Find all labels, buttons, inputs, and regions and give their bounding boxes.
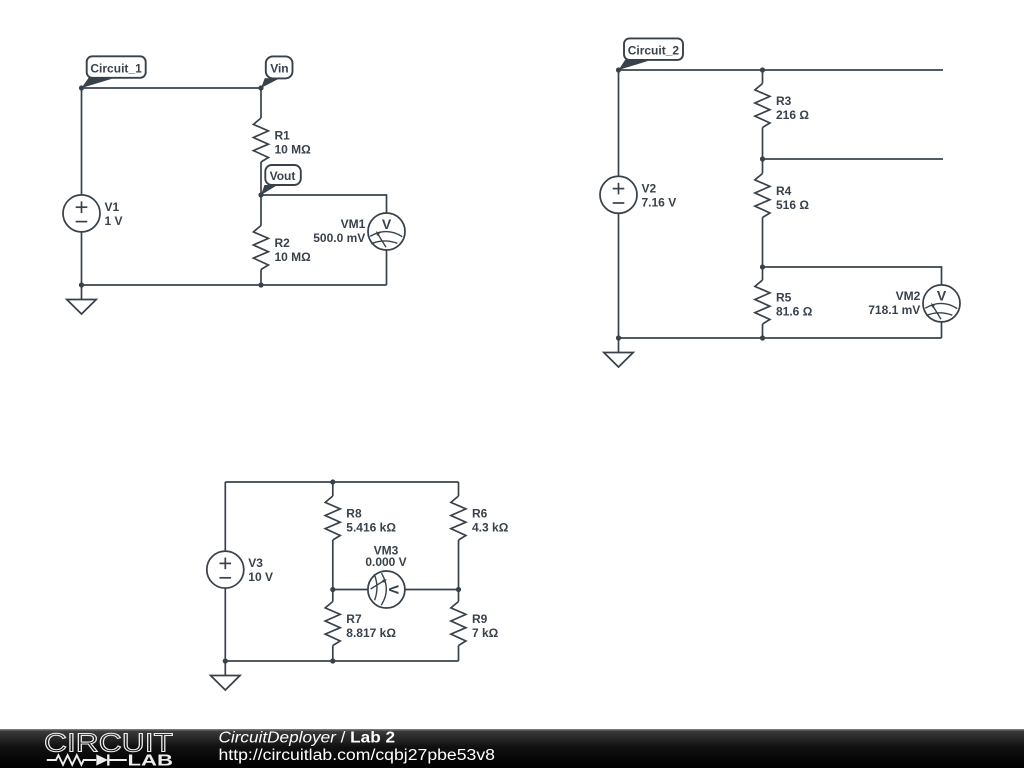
resistor R4 (755, 174, 809, 218)
ground circuit3 (211, 661, 240, 690)
svg-text:R3: R3 (776, 94, 792, 108)
node Vout (258, 192, 263, 197)
svg-text:5.416 kΩ: 5.416 kΩ (346, 521, 396, 535)
wire VM3 to bridge mid-right (405, 589, 459, 591)
svg-text:7.16 V: 7.16 V (642, 195, 677, 209)
resistor R5 (755, 280, 813, 324)
wire V3 bottom (224, 588, 226, 661)
wire R1 to Vout (260, 162, 262, 195)
svg-text:R1: R1 (275, 129, 291, 143)
resistor R7 (325, 602, 396, 646)
svg-text:V3: V3 (248, 556, 263, 570)
node bridge mid-left (330, 587, 335, 592)
node Vin (258, 85, 263, 90)
wire V1 bottom (81, 232, 83, 285)
wire top circuit2 (619, 69, 944, 71)
wire bottom circuit2 (619, 337, 942, 339)
svg-text:7 kΩ: 7 kΩ (472, 626, 499, 640)
resistor R1 (253, 118, 311, 162)
node circuit1 top-left (79, 85, 84, 90)
wire R4 to R5 junction (762, 218, 764, 281)
node mid junction (760, 156, 765, 161)
svg-text:CircuitDeployer / Lab 2: CircuitDeployer / Lab 2 (219, 730, 396, 747)
voltage source V2 (600, 176, 676, 213)
wire R3 top lead (762, 70, 764, 84)
svg-text:0.000 V: 0.000 V (365, 555, 406, 569)
svg-text:VM1: VM1 (341, 217, 366, 231)
ground circuit1 (67, 285, 96, 314)
wire R5 junction to VM2 (763, 267, 942, 285)
resistor R2 (253, 226, 311, 270)
node R3 top (760, 67, 765, 72)
wire R8 top lead (332, 482, 334, 496)
svg-text:V: V (937, 288, 947, 304)
node R5 bottom (760, 335, 765, 340)
svg-text:LAB: LAB (128, 753, 174, 768)
svg-text:R9: R9 (472, 612, 488, 626)
node bridge mid-right (456, 587, 461, 592)
wire left circuit3 V3 top (224, 482, 226, 551)
voltage source V3 (207, 551, 273, 588)
svg-text:10 MΩ: 10 MΩ (275, 250, 312, 264)
svg-text:VM2: VM2 (896, 289, 921, 303)
wire Vout to VM1 (261, 195, 387, 213)
svg-text:R7: R7 (346, 612, 362, 626)
svg-text:8.817 kΩ: 8.817 kΩ (346, 626, 396, 640)
svg-text:Circuit_1: Circuit_1 (90, 61, 142, 75)
svg-text:V: V (386, 585, 402, 595)
wire VM2 bottom (941, 322, 943, 338)
resistor R9 (451, 602, 499, 646)
svg-text:V: V (382, 216, 392, 232)
wire R9 bottom (458, 646, 460, 662)
svg-text:http://circuitlab.com/cqbj27pb: http://circuitlab.com/cqbj27pbe53v8 (219, 747, 496, 764)
label flag Circuit_2 (619, 38, 684, 70)
wire mid junction right (763, 158, 944, 160)
svg-text:718.1 mV: 718.1 mV (868, 303, 920, 317)
voltmeter VM3 (365, 544, 406, 609)
wire R2 bottom (260, 270, 262, 286)
svg-text:516 Ω: 516 Ω (776, 198, 809, 212)
wire R7 bottom (332, 646, 334, 662)
svg-text:4.3 kΩ: 4.3 kΩ (472, 521, 509, 535)
svg-text:Circuit_2: Circuit_2 (628, 43, 680, 57)
svg-text:R4: R4 (776, 184, 792, 198)
resistor R8 (325, 496, 396, 540)
wire R8 to bridge mid-left (332, 540, 334, 602)
resistor R3 (755, 84, 809, 128)
svg-text:Vout: Vout (270, 169, 296, 183)
svg-text:500.0 mV: 500.0 mV (313, 231, 365, 245)
svg-text:R5: R5 (776, 291, 792, 305)
svg-text:R2: R2 (275, 236, 291, 250)
node R5 top (760, 264, 765, 269)
node circuit2 bottom-left (616, 335, 621, 340)
svg-text:V2: V2 (642, 181, 657, 195)
voltage source V1 (63, 195, 123, 232)
node R2 bottom (258, 282, 263, 287)
wire R5 bottom (762, 324, 764, 338)
wire R6 top lead (458, 482, 460, 496)
wire VM1 bottom (386, 250, 388, 285)
node circuit1 bottom-left (79, 282, 84, 287)
resistor R6 (451, 496, 509, 540)
label flag Vin (261, 56, 293, 88)
logo resistor-diode (47, 754, 127, 765)
label flag Vout (261, 165, 301, 195)
label flag Circuit_1 (82, 56, 146, 88)
wire R3 to mid junction (762, 128, 764, 174)
svg-text:V1: V1 (105, 200, 120, 214)
svg-text:81.6 Ω: 81.6 Ω (776, 305, 813, 319)
wire top circuit1 (82, 87, 262, 89)
node circuit3 bottom-left (223, 658, 228, 663)
wire Vout to R2 (260, 195, 262, 226)
footer bar (0, 729, 1024, 768)
svg-text:10 V: 10 V (248, 570, 273, 584)
svg-text:Vin: Vin (270, 62, 288, 76)
wire top circuit3 (225, 481, 458, 483)
svg-text:1 V: 1 V (105, 214, 123, 228)
wire Vin to R1 (260, 88, 262, 118)
wire left circuit2 V2 top (618, 70, 620, 176)
svg-text:10 MΩ: 10 MΩ (275, 143, 312, 157)
wire left circuit1 V1 top (81, 88, 83, 195)
wire R6 to bridge mid-right (458, 540, 460, 602)
ground circuit2 (604, 338, 633, 367)
wire bottom circuit1 (82, 284, 387, 286)
wire bridge mid-left to VM3 (333, 589, 368, 591)
wire V2 bottom (618, 213, 620, 338)
svg-text:R8: R8 (346, 507, 362, 521)
svg-text:216 Ω: 216 Ω (776, 108, 809, 122)
node R8 top (330, 479, 335, 484)
node R7 bottom (330, 658, 335, 663)
voltmeter VM2 (868, 285, 960, 322)
svg-text:R6: R6 (472, 507, 488, 521)
node circuit2 top-left (616, 67, 621, 72)
voltmeter VM1 (313, 213, 405, 250)
wire bottom circuit3 (225, 660, 458, 662)
